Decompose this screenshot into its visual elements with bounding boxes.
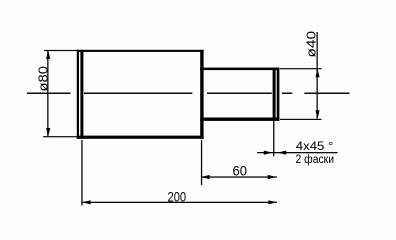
shaft outline: big cylinder left face (77, 50, 79, 139)
svg-text:ø80: ø80 (35, 66, 50, 92)
dim 60: left arrow (201, 175, 210, 179)
dim 60: left extension line (201, 140, 202, 185)
dim 200: dimension line (82, 202, 277, 203)
small cylinder bottom edge (200, 118, 279, 121)
dim 60: right arrow (268, 175, 277, 179)
svg-text:4x45 °: 4x45 ° (296, 141, 334, 153)
dim 200: left arrow (82, 200, 91, 204)
dim d80: bottom extension line (43, 136, 77, 137)
dim 60: dimension line (201, 176, 277, 177)
big cylinder top edge (77, 50, 204, 52)
left chamfer line (80, 50, 83, 139)
dim d80: dimension line (47, 50, 48, 136)
small cylinder right face (277, 68, 280, 121)
chamfer dim: leader line (257, 152, 338, 153)
dim d40: bottom arrow (315, 110, 319, 119)
chamfer dim: right-pointing arrow (264, 151, 273, 155)
dim d40: top extension line (280, 68, 322, 69)
svg-text:ø40: ø40 (303, 31, 318, 58)
small cylinder right chamfer line (273, 68, 276, 121)
dim d40: dimension line (317, 32, 318, 119)
dim d80: top extension line (44, 50, 79, 51)
dim d80: top arrow (46, 50, 50, 59)
chamfer dim: left-pointing arrow (278, 151, 287, 155)
svg-text:2 фаски: 2 фаски (296, 154, 335, 166)
step (big cylinder right face) (200, 50, 203, 139)
svg-text:60: 60 (233, 163, 248, 179)
chamfer dim: vertical extension line (273, 121, 274, 157)
dim d40: top arrow (315, 69, 319, 78)
svg-text:200: 200 (168, 189, 187, 204)
dim d40: bottom extension line (280, 119, 322, 120)
dim d80: bottom arrow (46, 128, 50, 137)
dim 200: left extension line (81, 140, 82, 206)
small cylinder top edge (200, 68, 279, 71)
centerline (27, 93, 350, 95)
dim 200: right arrow (268, 200, 277, 204)
big cylinder bottom edge (77, 136, 204, 139)
